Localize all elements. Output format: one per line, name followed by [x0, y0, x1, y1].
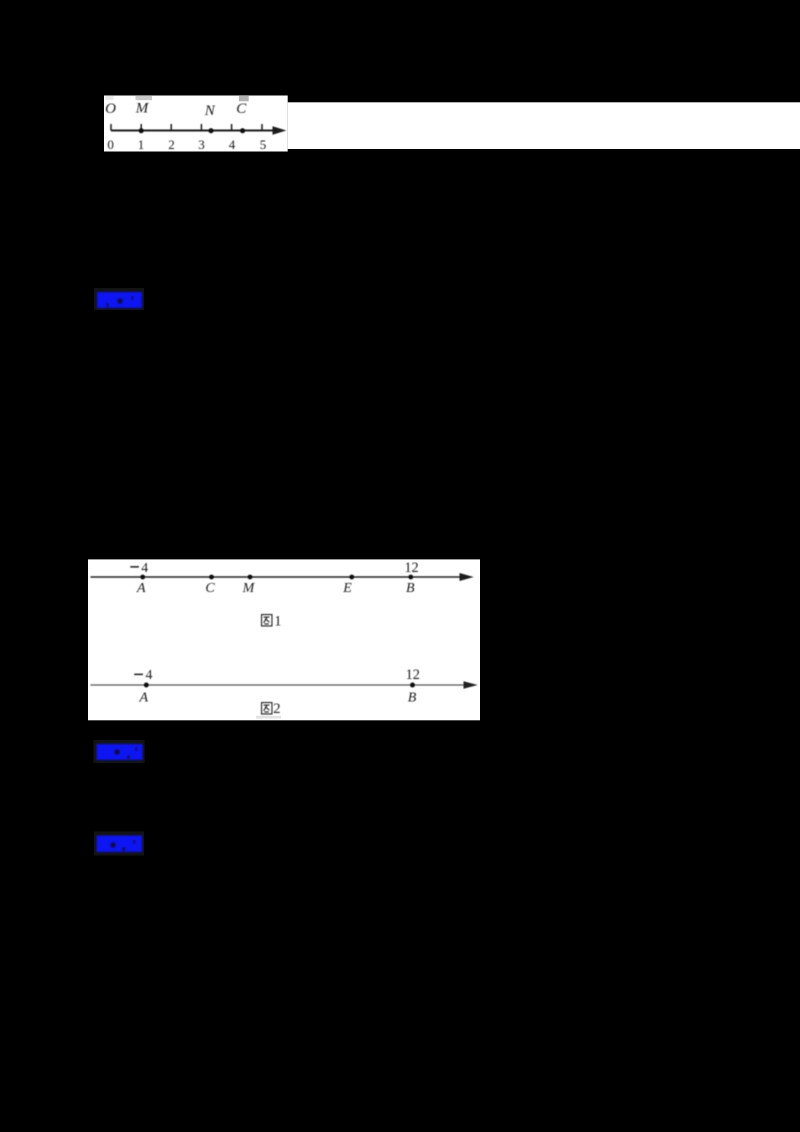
point E dot: [349, 575, 354, 580]
svg-text:1: 1: [138, 137, 145, 152]
svg-text:O: O: [105, 101, 116, 117]
blue marker 3: [94, 832, 144, 856]
diagram 2 axis: [91, 681, 478, 689]
arrowhead: [460, 573, 474, 581]
gray smudge above O: [106, 96, 114, 100]
svg-text:M: M: [135, 101, 150, 117]
gray smudge above C: [239, 96, 249, 101]
arrowhead: [464, 681, 478, 689]
svg-text:0: 0: [107, 137, 114, 152]
blue marker 1: [94, 288, 144, 310]
svg-text:M: M: [242, 581, 256, 596]
svg-text:C: C: [205, 581, 215, 596]
point C dot: [209, 575, 214, 580]
tick 3: [200, 124, 202, 131]
caption tu1 glyph: [262, 615, 272, 626]
figure 1 white side strip: [288, 102, 800, 149]
svg-text:A: A: [139, 691, 149, 706]
arrowhead: [273, 126, 287, 135]
point B dot: [410, 683, 415, 688]
svg-text:4: 4: [146, 667, 153, 682]
svg-text:E: E: [342, 581, 352, 596]
value -4: [134, 667, 152, 682]
smudge under caption: [256, 716, 281, 719]
figure 2 white panel: [88, 559, 480, 720]
caption tu2 glyph: [262, 703, 272, 714]
point M dot: [139, 128, 144, 133]
number line 1 axis: [111, 124, 286, 135]
point B dot: [408, 575, 413, 580]
tick 4: [231, 124, 233, 131]
figure 1 white panel: [104, 96, 288, 152]
point N dot: [208, 128, 213, 133]
blue marker 2: [94, 740, 145, 763]
svg-text:A: A: [136, 581, 146, 596]
svg-text:1: 1: [274, 613, 282, 629]
svg-text:2: 2: [168, 137, 175, 152]
svg-text:12: 12: [406, 667, 420, 683]
value -4: [130, 560, 148, 575]
svg-text:B: B: [406, 581, 415, 596]
svg-text:4: 4: [229, 137, 236, 152]
tick 1: [140, 124, 142, 131]
svg-text:5: 5: [260, 137, 267, 152]
point A dot: [144, 683, 149, 688]
point A dot: [140, 575, 145, 580]
svg-text:4: 4: [141, 560, 148, 575]
tick 0: [110, 124, 112, 131]
svg-text:B: B: [408, 691, 417, 706]
svg-text:N: N: [204, 103, 216, 119]
svg-text:2: 2: [273, 701, 281, 717]
diagram 1 axis: [91, 573, 474, 581]
svg-text:3: 3: [198, 137, 205, 152]
svg-text:12: 12: [404, 560, 418, 576]
point M dot: [248, 575, 253, 580]
svg-text:C: C: [236, 101, 247, 117]
gray smudge above M: [136, 96, 153, 100]
point C dot: [240, 128, 245, 133]
tick 2: [170, 124, 172, 131]
tick 5: [261, 124, 263, 131]
